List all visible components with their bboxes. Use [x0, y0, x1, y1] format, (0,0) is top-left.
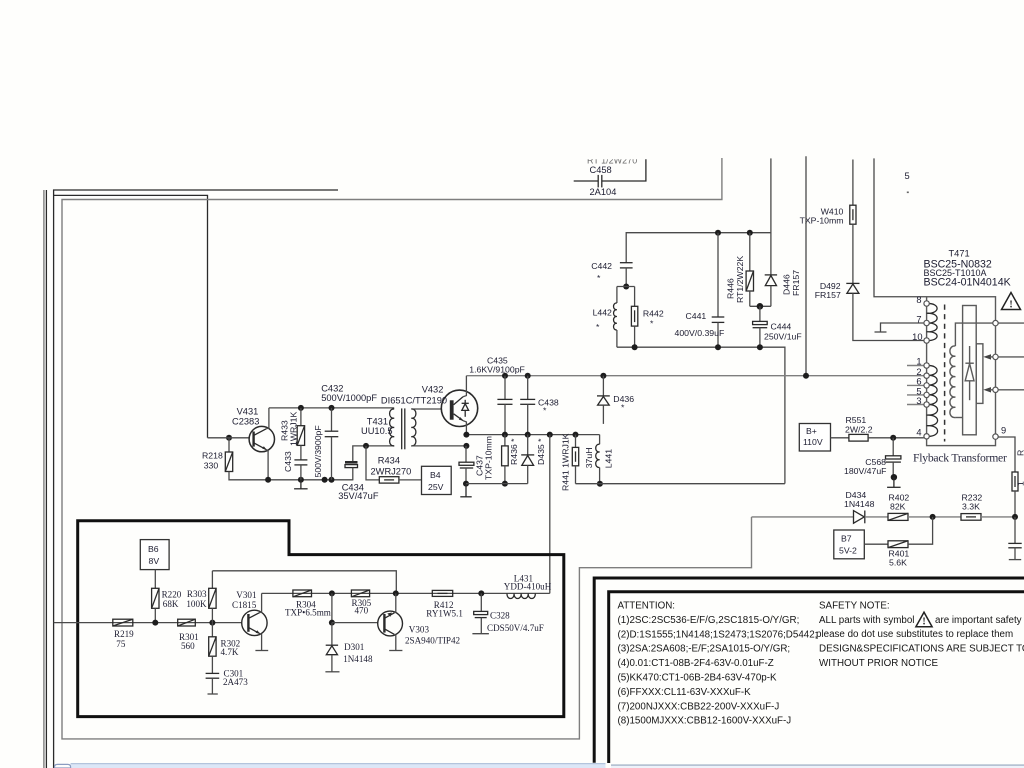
capacitor C568: [892, 438, 894, 456]
svg-text:C433: C433: [283, 451, 293, 472]
svg-text:B6: B6: [148, 544, 159, 554]
svg-text:400V/0.39uF: 400V/0.39uF: [675, 328, 725, 338]
wire: R303 top bus: [212, 571, 396, 594]
svg-text:4: 4: [916, 428, 921, 438]
svg-text:TXP-10mm: TXP-10mm: [484, 436, 494, 480]
svg-text:1: 1: [916, 357, 921, 367]
svg-text:4.7K: 4.7K: [221, 647, 239, 657]
wire: D301 branch: [331, 593, 333, 622]
svg-text:(7)200NJXXX:CBB22-200V-XXXuF-J: (7)200NJXXX:CBB22-200V-XXXuF-J: [618, 701, 780, 712]
svg-text:TXP•6.5mm: TXP•6.5mm: [285, 607, 331, 617]
svg-text:FR157: FR157: [815, 290, 841, 300]
capacitor C438: [527, 376, 529, 400]
resistor R304: [293, 590, 312, 597]
wire: gray loop top H3: [62, 158, 752, 739]
svg-text:1.6KV/9100pF: 1.6KV/9100pF: [469, 364, 525, 374]
svg-text:C458: C458: [590, 165, 612, 175]
svg-text:!: !: [922, 617, 925, 628]
EHT terminal: [993, 320, 998, 325]
svg-text:ALL parts with symbol: ALL parts with symbol: [819, 615, 914, 626]
svg-text:470: 470: [355, 606, 369, 616]
svg-text:(1)2SC:2SC536-E/F/G,2SC1815-O/: (1)2SC:2SC536-E/F/G,2SC1815-O/Y/GR;: [618, 615, 800, 626]
wire: collector bus y=407.9: [269, 407, 394, 409]
bottom panel left: [71, 764, 606, 768]
svg-text:1: 1: [1016, 481, 1024, 486]
resistor R433: [300, 408, 302, 426]
svg-text:1N4148: 1N4148: [844, 499, 875, 509]
svg-text:5: 5: [905, 171, 910, 181]
wire: top horizontal H1: [53, 189, 338, 191]
screen terminal arrow: [983, 387, 991, 392]
svg-text:Flyback Transformer: Flyback Transformer: [913, 452, 1007, 465]
B6 box: [140, 540, 169, 570]
svg-text:100K: 100K: [186, 599, 207, 609]
bottom scroll button: [55, 764, 71, 768]
svg-text:DESIGN&SPECIFICATIONS ARE SUBJ: DESIGN&SPECIFICATIONS ARE SUBJECT TO: [819, 644, 1024, 655]
resistor R302: [211, 623, 213, 637]
resistor R412: [432, 590, 452, 596]
svg-text:V431: V431: [237, 407, 259, 417]
svg-text:RT1/2W22K: RT1/2W22K: [735, 256, 745, 303]
svg-text:D301: D301: [344, 642, 364, 652]
svg-text:R436 *: R436 *: [509, 438, 519, 465]
svg-text:C328: C328: [490, 611, 510, 621]
svg-text:C442: C442: [591, 261, 612, 271]
capacitor C435: [504, 376, 506, 400]
svg-text:V301: V301: [236, 590, 256, 600]
diode D435: [527, 435, 529, 455]
svg-text:3.3K: 3.3K: [962, 501, 980, 511]
resistor R442: [634, 287, 636, 307]
svg-text:T471: T471: [949, 249, 970, 259]
svg-text:1N4148: 1N4148: [343, 654, 373, 664]
inductor L442: [616, 287, 618, 304]
wire: B+ riser x=806: [805, 156, 807, 376]
inductor L441: [599, 435, 601, 445]
svg-text:are important safety: are important safety: [935, 615, 1022, 626]
svg-text:110V: 110V: [803, 437, 823, 447]
svg-text:5.6K: 5.6K: [889, 557, 907, 567]
thick box border: [78, 521, 564, 717]
svg-text:B4: B4: [430, 470, 441, 480]
svg-text:250V/1uF: 250V/1uF: [764, 331, 802, 341]
svg-text:R434: R434: [378, 456, 400, 466]
svg-text:!: !: [1009, 299, 1012, 310]
svg-text:500V/1000pF: 500V/1000pF: [321, 393, 377, 403]
transformer T471 outline box: [927, 297, 996, 446]
svg-text:R446: R446: [725, 278, 735, 299]
warning triangle (flyback): [1002, 293, 1021, 310]
T471 winding pins 1-2-6-5-3-4: [927, 365, 938, 404]
resistor R551: [831, 437, 849, 439]
svg-text:8: 8: [916, 295, 921, 305]
resistor R303: [211, 571, 213, 589]
capacitor C328: [480, 593, 482, 611]
resistor R218: [226, 435, 232, 441]
wire: L442/R442 parallel top: [617, 286, 635, 288]
svg-text:BSC24-01N4014K: BSC24-01N4014K: [924, 276, 1011, 288]
transistor V303: [378, 611, 403, 636]
diode D436: [602, 376, 604, 396]
svg-text:YDD-410uH: YDD-410uH: [504, 581, 552, 591]
capacitor C301: [206, 672, 220, 674]
svg-text:WITHOUT PRIOR NOTICE: WITHOUT PRIOR NOTICE: [819, 658, 938, 669]
svg-text:180V/47uF: 180V/47uF: [844, 466, 887, 476]
svg-text:C2383: C2383: [232, 417, 259, 427]
svg-text:2WRJ270: 2WRJ270: [371, 466, 412, 476]
svg-text:(4)0.01:CT1-08B-2F4-63V-0.01uF: (4)0.01:CT1-08B-2F4-63V-0.01uF-Z: [618, 658, 774, 669]
attention box thick border: [609, 592, 1024, 763]
resistor R401: [864, 543, 888, 545]
resistor R434: [366, 446, 379, 480]
wire: left vertical bus: [53, 190, 55, 768]
resistor R436: [504, 435, 506, 446]
diode D434: [854, 511, 865, 524]
sheet border thick line: [594, 578, 1024, 763]
svg-text:(2)D:1S1555;1N4148;1S2473;1S20: (2)D:1S1555;1N4148;1S2473;1S2076;D5442;: [618, 629, 818, 640]
svg-text:(5)KK470:CT1-06B-2B4-63V-470p-: (5)KK470:CT1-06B-2B4-63V-470p-K: [618, 673, 777, 684]
pin 7 ground stub: [881, 323, 924, 332]
svg-text:C444: C444: [771, 322, 792, 332]
T471 primary winding pins 8-7-10: [927, 303, 938, 323]
svg-text:R: R: [1016, 450, 1024, 456]
svg-text:ATTENTION:: ATTENTION:: [618, 601, 676, 612]
svg-text:UU10.5: UU10.5: [361, 426, 393, 436]
resistor R219: [113, 619, 133, 626]
svg-text:75: 75: [116, 639, 126, 649]
capacitor C444: [759, 306, 761, 321]
svg-text:FR157: FR157: [791, 270, 801, 296]
svg-text:7: 7: [916, 314, 921, 324]
svg-text:RY1W5.1: RY1W5.1: [426, 609, 463, 619]
svg-text:R303: R303: [187, 589, 207, 599]
wire: collector bus y=593.4: [262, 592, 550, 594]
svg-text:25V: 25V: [428, 482, 444, 492]
svg-text:CDS50V/4.7uF: CDS50V/4.7uF: [487, 623, 544, 633]
svg-text:C1815: C1815: [232, 600, 257, 610]
svg-text:SAFETY NOTE:: SAFETY NOTE:: [819, 601, 890, 612]
capacitor + ground at right edge: [1014, 517, 1016, 544]
fusible resistor W410: [852, 160, 854, 206]
resistor (right edge, cut): [1012, 472, 1018, 491]
diode D492: [846, 282, 859, 284]
wire: emitter bus y=434.6: [466, 434, 599, 436]
wire: T431 to V432 base: [411, 408, 442, 410]
svg-text:35V/47uF: 35V/47uF: [338, 491, 379, 501]
wire: collector line y=375.7 to pin 2: [466, 375, 924, 377]
capacitor C432: [331, 408, 333, 431]
warning triangle (safety note): [916, 612, 932, 627]
wire: small rail C437-D435: [466, 483, 528, 485]
svg-text:6: 6: [916, 377, 921, 387]
svg-text:B+: B+: [806, 426, 817, 436]
svg-text:2A473: 2A473: [223, 677, 248, 687]
svg-text:R442: R442: [643, 308, 664, 318]
svg-text:L442: L442: [593, 307, 612, 317]
wire: R446/D446 junction: [750, 305, 771, 307]
svg-text:V303: V303: [409, 624, 430, 634]
resistor R402: [888, 513, 908, 520]
svg-text:D435 *: D435 *: [536, 438, 546, 465]
capacitor C433: [294, 459, 307, 461]
resistor R305: [351, 590, 369, 597]
focus terminal arrow: [983, 354, 991, 359]
svg-text:3: 3: [916, 396, 921, 406]
wire: T431 primary bottom: [353, 446, 394, 461]
wire: node bus y=232.7: [626, 233, 771, 263]
svg-text:(3)2SA:2SA608;-E/F;2SA1015-O/Y: (3)2SA:2SA608;-E/F;2SA1015-O/Y/GR;: [618, 644, 791, 655]
B4 box: [422, 466, 452, 494]
svg-text:(6)FFXXX:CL11-63V-XXXuF-K: (6)FFXXX:CL11-63V-XXXuF-K: [618, 687, 752, 698]
svg-text:68K: 68K: [163, 599, 179, 609]
wire: base bus y=622.6: [54, 622, 242, 624]
svg-text:2SA940/TIP42: 2SA940/TIP42: [405, 635, 461, 645]
V432 damper diode: [464, 400, 466, 404]
resistor R232: [961, 514, 981, 521]
svg-text:10: 10: [912, 332, 922, 342]
svg-text:B7: B7: [841, 534, 852, 544]
capacitor C441: [715, 230, 721, 236]
B+ box: [799, 424, 830, 452]
svg-text:please do dot use substitutes: please do dot use substitutes to replace…: [816, 629, 1013, 640]
transistor V301: [242, 610, 267, 635]
svg-text:DI651C/TT2190: DI651C/TT2190: [381, 396, 447, 406]
wire: left border double line: [43, 190, 45, 768]
resistor R446: [747, 230, 753, 236]
diode D301: [331, 623, 333, 646]
svg-text:R218: R218: [202, 450, 223, 460]
svg-text:2W/2.2: 2W/2.2: [845, 424, 873, 434]
svg-text:9: 9: [1001, 426, 1006, 436]
pin 9 terminal: [993, 434, 998, 439]
resistor R301: [178, 619, 196, 626]
svg-text:37uH: 37uH: [584, 448, 594, 469]
focus/screen divider block: [976, 344, 983, 404]
HV rectifier diode: [969, 346, 971, 363]
HV block rectangle: [963, 306, 977, 435]
capacitor C437: [465, 446, 467, 462]
svg-text:V432: V432: [422, 384, 444, 394]
svg-text:500V/3900pF: 500V/3900pF: [313, 425, 323, 477]
capacitor C458: [574, 180, 599, 182]
transformer T431: [390, 409, 395, 446]
svg-text:2A104: 2A104: [590, 187, 617, 197]
svg-text:2: 2: [916, 367, 921, 377]
inductor L431: [507, 593, 535, 598]
wire: long drop to L431: [549, 435, 551, 594]
bottom panel right: [611, 766, 1024, 768]
wire: top horizontal H2 to V431 stage: [54, 195, 208, 437]
svg-text:D446: D446: [781, 274, 791, 295]
svg-text:R220: R220: [162, 590, 182, 600]
transistor V432: [441, 390, 477, 426]
T471 core (dashed): [944, 305, 946, 442]
svg-text:560: 560: [181, 641, 195, 651]
svg-text:82K: 82K: [890, 501, 906, 511]
diode D446: [770, 158, 772, 275]
svg-text:5: 5: [916, 386, 921, 396]
wire: rail to x=785 riser: [576, 483, 785, 485]
transistor V431: [208, 437, 250, 439]
pin terminals: [924, 301, 929, 306]
svg-text:C441: C441: [686, 311, 707, 321]
wire: pin8 riser x=874: [874, 158, 927, 296]
svg-text:5V-2: 5V-2: [839, 546, 857, 556]
svg-text:C438: C438: [538, 397, 559, 407]
capacitor C434: [345, 461, 358, 464]
svg-text:(8)1500MJXXX:CBB12-1600V-XXXuF: (8)1500MJXXX:CBB12-1600V-XXXuF-J: [618, 716, 792, 727]
wire: D434/R402/R232 bus: [752, 516, 854, 518]
capacitor C442: [620, 262, 633, 264]
svg-text:1WRJ1K: 1WRJ1K: [289, 412, 299, 446]
svg-text:330: 330: [204, 460, 219, 470]
pin stubs 1,6,5,3: [907, 365, 924, 367]
wire: bottom bus y=347.2 to right: [617, 346, 635, 348]
svg-text:R441 1WRJ1K: R441 1WRJ1K: [560, 433, 570, 491]
svg-text:L441: L441: [603, 449, 613, 468]
svg-text:R219: R219: [114, 629, 134, 639]
ground below rail: [300, 480, 302, 489]
resistor R441: [575, 435, 577, 448]
emitter rail dots: [265, 477, 271, 483]
svg-text:8V: 8V: [149, 556, 160, 566]
wire: pin9 feed: [998, 437, 1015, 472]
B7 box: [834, 530, 865, 559]
resistor R220: [154, 570, 156, 589]
T471 secondary HV winding: [955, 323, 995, 346]
